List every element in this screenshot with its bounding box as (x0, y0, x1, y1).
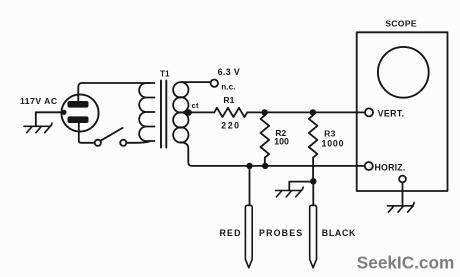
red probe body (245, 205, 252, 267)
svg-text:1000: 1000 (322, 139, 345, 149)
resistor R2 100 (261, 112, 270, 165)
svg-text:PROBES: PROBES (259, 228, 303, 238)
plug prong bottom (68, 116, 89, 123)
wire scope ground stub (402, 182, 404, 205)
plug prong top (68, 101, 89, 108)
VERT terminal (365, 108, 373, 116)
wire secondary top to n.c. terminal (181, 81, 211, 83)
wire plug top to transformer primary (78, 83, 150, 101)
ground G2 (probes) (276, 187, 304, 197)
ground G3 (scope) (387, 202, 414, 212)
wire red probe lead (249, 166, 251, 205)
switch S1 left contact (95, 140, 101, 146)
svg-text:6.3 V: 6.3 V (218, 67, 241, 77)
svg-text:SCOPE: SCOPE (385, 18, 417, 28)
node ct dot (186, 109, 192, 115)
plug P1 body (61, 94, 98, 131)
node R3 top dot (310, 109, 316, 115)
svg-text:n.c.: n.c. (221, 83, 235, 92)
svg-text:T1: T1 (160, 70, 170, 79)
wire plug bottom to switch (79, 123, 95, 143)
svg-text:VERT.: VERT. (378, 109, 405, 119)
scope box (357, 32, 448, 191)
node R2 top dot (261, 109, 267, 115)
HORIZ terminal (365, 162, 373, 170)
resistor R1 220 (214, 108, 247, 117)
switch S1 lever (100, 128, 122, 141)
wire ground branch (289, 182, 313, 191)
wire R1 to VERT (247, 111, 365, 113)
transformer T1 secondary winding (173, 82, 188, 97)
wire center tap (180, 111, 215, 113)
wire from wall ground to plug (36, 112, 63, 125)
resistor R3 1000 (309, 112, 318, 181)
wire switch to primary bottom (126, 141, 150, 143)
svg-text:RED: RED (220, 228, 242, 238)
ground G1 (wall) (24, 123, 52, 133)
black probe body (310, 205, 317, 267)
node R2 bottom dot (262, 163, 268, 169)
node: plug left junction dot (61, 110, 66, 115)
node red probe dot (246, 163, 252, 169)
svg-text:BLACK: BLACK (322, 228, 356, 238)
switch S1 right contact (120, 140, 126, 146)
transformer T1 core (161, 81, 166, 148)
svg-text:100: 100 (274, 136, 289, 146)
scope CRT screen (378, 47, 429, 98)
scope ground terminal (399, 176, 406, 183)
svg-text:220: 220 (221, 121, 240, 131)
n.c. terminal circle (211, 80, 218, 87)
svg-text:117V AC: 117V AC (20, 96, 58, 106)
wire transformer bottom to HORIZ (bottom rail) (181, 142, 365, 166)
svg-text:HORIZ.: HORIZ. (375, 162, 406, 172)
transformer T1 primary winding (139, 83, 154, 141)
svg-text:ct: ct (192, 101, 200, 110)
svg-text:R1: R1 (223, 95, 234, 105)
svg-text:R3: R3 (324, 128, 336, 138)
node R3/ground/black probe dot (310, 178, 316, 184)
svg-text:SeekIC.com: SeekIC.com (357, 253, 454, 273)
wire black probe lead (312, 181, 314, 205)
